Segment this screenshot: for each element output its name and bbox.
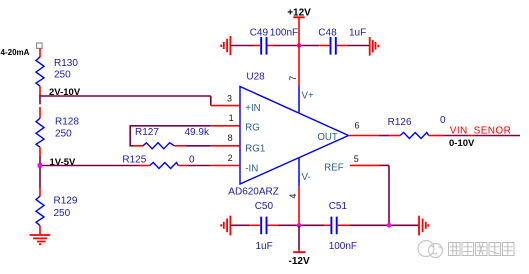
power -12V (289, 225, 310, 266)
svg-text:RG: RG (245, 123, 260, 134)
svg-text:4: 4 (288, 194, 298, 199)
svg-text:6: 6 (355, 121, 360, 131)
svg-text:+IN: +IN (245, 103, 260, 114)
op-amp U28 pin 8 (211, 145, 240, 147)
resistor R129 (36, 188, 78, 235)
capacitor C50 (250, 201, 278, 252)
watermark text (449, 243, 515, 256)
wire bottom rail mid (277, 224, 324, 226)
svg-text:0: 0 (440, 115, 446, 126)
svg-text:0-10V: 0-10V (449, 138, 475, 149)
junction node +12V rail (297, 43, 302, 48)
op-amp pin 5 REF (350, 164, 379, 166)
wire top rail left segment (230, 45, 254, 47)
ground GND bottom-right (pointing right) (419, 216, 428, 236)
capacitor C49 (250, 27, 298, 54)
svg-text:C50: C50 (255, 201, 274, 212)
svg-text:-12V: -12V (289, 256, 310, 267)
op-amp U28 pin 2 (211, 165, 240, 167)
junction node V- rail (297, 223, 302, 228)
resistor R127 feedback loop wires (129, 125, 210, 146)
svg-text:7: 7 (288, 76, 298, 81)
svg-text:R126: R126 (388, 117, 412, 128)
op-amp V+ stem (298, 86, 300, 114)
svg-text:250: 250 (55, 129, 72, 140)
svg-text:R130: R130 (54, 58, 78, 69)
svg-text:U28: U28 (246, 72, 265, 83)
power +12V (287, 8, 311, 46)
svg-text:5: 5 (354, 154, 359, 164)
svg-text:1uF: 1uF (256, 241, 273, 252)
ground GND top-right (pointing right) (370, 37, 379, 56)
wire OUT to R126 (379, 135, 389, 137)
wire top rail middle (273, 45, 319, 47)
wire REF down (379, 165, 389, 225)
watermark logo (418, 241, 443, 258)
svg-text:8: 8 (228, 133, 233, 143)
ground GND below R129 (30, 235, 51, 244)
svg-text:1uF: 1uF (349, 27, 366, 38)
svg-text:100nF: 100nF (270, 27, 298, 38)
svg-text:V+: V+ (302, 91, 314, 102)
svg-text:2V-10V: 2V-10V (49, 87, 81, 98)
svg-text:R129: R129 (54, 195, 78, 206)
svg-text:2: 2 (228, 153, 233, 163)
svg-text:3: 3 (227, 93, 232, 103)
svg-text:OUT: OUT (317, 132, 338, 143)
op-amp U28 pin 3 (211, 105, 240, 107)
resistor R126 (388, 115, 446, 138)
op-amp U28 pin 1 (211, 125, 240, 127)
svg-text:+12V: +12V (287, 8, 311, 19)
resistor R130 (36, 48, 78, 94)
svg-text:VIN_SENOR: VIN_SENOR (450, 126, 511, 137)
resistor R125 (122, 154, 210, 168)
op-amp U28 triangle body (240, 87, 349, 185)
ground GND top-left (pointing left) (221, 36, 230, 55)
svg-text:REF: REF (324, 163, 343, 174)
op-amp pin 7 (V+) (298, 46, 300, 86)
svg-text:R128: R128 (55, 117, 79, 128)
wire node 1V-5V (39, 156, 140, 188)
op-amp pin 4 (V-) (298, 186, 300, 225)
op-amp V- stem (298, 157, 300, 186)
op-amp pin 6 OUT (349, 135, 380, 137)
port 4-20mA input pad (1, 43, 43, 57)
wire node 2V-10V (39, 87, 211, 106)
svg-text:R127: R127 (135, 127, 159, 138)
svg-text:1V-5V: 1V-5V (50, 157, 77, 168)
svg-text:C51: C51 (329, 201, 348, 212)
svg-text:4-20mA: 4-20mA (1, 48, 30, 57)
capacitor C48 (318, 27, 366, 54)
svg-text:250: 250 (54, 69, 71, 80)
svg-text:1: 1 (229, 113, 234, 123)
svg-text:AD620ARZ: AD620ARZ (228, 186, 279, 197)
wire bottom rail left (230, 224, 249, 226)
svg-text:R125: R125 (122, 154, 146, 165)
ground GND bottom-left (pointing left) (221, 216, 230, 236)
svg-text:C48: C48 (318, 27, 337, 38)
resistor R127 (133, 127, 211, 149)
svg-text:250: 250 (54, 208, 71, 219)
junction node REF rail (387, 223, 392, 228)
svg-text:0: 0 (189, 154, 195, 165)
svg-text:RG1: RG1 (245, 143, 265, 154)
svg-text:-IN: -IN (245, 163, 258, 174)
wire bottom rail right (349, 224, 419, 226)
svg-text:V-: V- (302, 172, 311, 183)
svg-text:C49: C49 (250, 27, 269, 38)
wire R126 to VIN_SENOR (443, 135, 520, 137)
svg-text:100nF: 100nF (329, 241, 357, 252)
junction node 1V-5V (38, 163, 42, 167)
wire top rail right (347, 45, 370, 47)
capacitor C51 (325, 201, 357, 252)
svg-text:49.9k: 49.9k (185, 127, 210, 138)
resistor R128 (36, 107, 79, 156)
